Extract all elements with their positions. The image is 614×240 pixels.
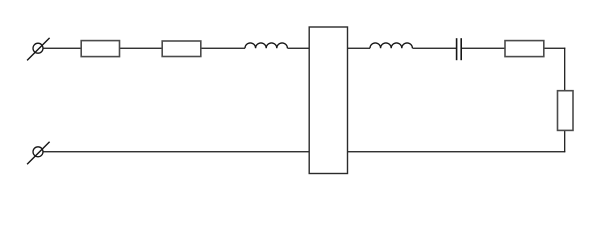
resistor R2 [162,41,201,57]
wire right: corner down to R4 [564,48,566,91]
capacitor C1 [457,38,462,60]
terminal J2 (bottom-left input) [27,142,49,165]
resistor R3 [505,41,544,57]
resistor R4 (vertical load) [558,91,574,131]
wire top: L1 to block U1 [288,47,311,49]
terminal J1 (top-left input) [27,38,49,61]
wire bottom: terminal J2 to bottom-right corner [43,151,565,153]
resistor R1 [81,41,119,57]
inductor L2 [370,43,412,48]
wire top: C1 to R3 [462,47,506,49]
wire top: L2 to C1 [413,47,457,49]
wire top: R1 to R2 [120,47,163,49]
wire right: R4 down to bottom corner [564,131,566,153]
wire top: R3 to right corner [544,47,565,49]
inductor L1 [245,43,287,48]
block U1 (vertical rectangle) [309,27,347,174]
wire top: R2 to L1 [201,47,245,49]
wire top: terminal J1 to R1 [43,47,81,49]
wire top: block U1 to L2 [347,47,370,49]
